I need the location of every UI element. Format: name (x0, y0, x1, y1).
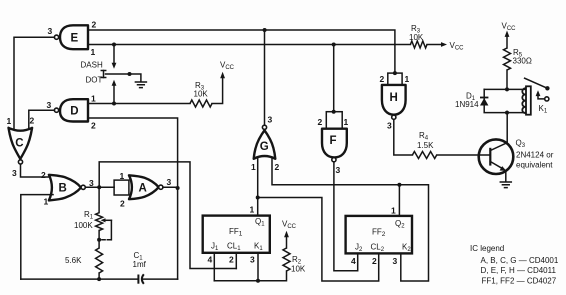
node relay top (505, 87, 509, 91)
resistor R4 1.5K (412, 131, 436, 159)
svg-text:1: 1 (7, 116, 12, 126)
gate A (tied-input NOR inverter) (114, 171, 171, 209)
svg-text:VCC: VCC (282, 220, 297, 231)
node 5.6K bottom on rail (97, 277, 101, 281)
wire FF1 Q1 up to gate G pin 1 and across to FF2 clock (257, 158, 259, 216)
svg-text:4: 4 (351, 256, 356, 266)
wire FF1 K1 pin 3 stub (257, 253, 259, 281)
node F input tap (332, 43, 336, 47)
resistor R3 10K (pull-up for DOT net) (190, 81, 212, 107)
switch lever (pole) (101, 71, 141, 82)
svg-text:10K: 10K (194, 90, 209, 99)
Vcc arrow (R2) (282, 220, 297, 249)
svg-text:3: 3 (393, 256, 398, 266)
svg-text:3: 3 (12, 168, 17, 178)
svg-text:1: 1 (344, 117, 349, 127)
svg-text:C: C (15, 138, 23, 150)
wire relay top rail (484, 88, 526, 90)
node Q1 junction (256, 196, 260, 200)
svg-text:1: 1 (44, 197, 49, 207)
capacitor C1 1mf (133, 251, 147, 284)
wire relay bottom rail (484, 112, 526, 114)
node K1 junction (256, 279, 260, 283)
svg-text:2: 2 (41, 170, 46, 180)
wire to R3 right (395, 44, 411, 46)
wire R4 to Q3 base (437, 154, 490, 156)
svg-text:1: 1 (91, 94, 96, 104)
wire C output to B pin 2 (21, 164, 54, 177)
node DASH tap (112, 43, 116, 47)
relay coil K1 (522, 86, 530, 114)
svg-text:1: 1 (120, 171, 125, 181)
svg-text:E: E (71, 33, 79, 45)
IC legend (470, 244, 559, 285)
gate H (tied-input NAND inverter pointing down) (380, 71, 410, 130)
gate C (7, 116, 35, 179)
svg-text:A, B, C, G — CD4001: A, B, C, G — CD4001 (481, 256, 559, 265)
svg-text:1: 1 (251, 162, 256, 172)
flip-flop FF1 (CD4027 half) (203, 205, 270, 265)
svg-text:2: 2 (372, 256, 377, 266)
wire B pin 1 down to bottom rail (21, 195, 53, 280)
svg-text:R1: R1 (84, 210, 94, 221)
switch contact DASH (upper throw) (113, 45, 115, 64)
ground (Q3 emitter) (500, 182, 511, 188)
svg-text:equivalent: equivalent (516, 161, 553, 170)
svg-text:K1: K1 (539, 104, 548, 115)
svg-text:3: 3 (336, 165, 341, 175)
resistor R2 10K (283, 248, 306, 274)
gate F (tied-input NAND inverter pointing down) (318, 45, 349, 176)
svg-text:DOT: DOT (86, 76, 103, 85)
wire E output to C pin 1 (14, 37, 54, 129)
transistor Q3 2N4124 NPN (479, 112, 554, 182)
wire FF1 J1 pin 4 down (213, 253, 215, 281)
node relay bottom (505, 111, 509, 115)
svg-text:3: 3 (387, 121, 392, 131)
svg-text:D, E, F, H — CD4011: D, E, F, H — CD4011 (481, 266, 557, 275)
node switch pole (128, 72, 132, 76)
svg-text:10K: 10K (409, 33, 424, 42)
svg-text:B: B (59, 183, 67, 195)
svg-text:2: 2 (318, 117, 323, 127)
svg-text:H: H (390, 92, 398, 104)
wire B output to gate A input (85, 186, 114, 188)
svg-text:VCC: VCC (502, 22, 517, 33)
wire gate G pin 2 to Q2/K2 net (272, 158, 429, 282)
svg-text:IC legend: IC legend (470, 244, 504, 253)
svg-text:D: D (70, 106, 78, 118)
svg-text:2: 2 (120, 199, 125, 209)
wire bottom rail (21, 278, 138, 280)
svg-text:100K: 100K (74, 221, 93, 230)
svg-text:FF1, FF2 — CD4027: FF1, FF2 — CD4027 (482, 276, 557, 285)
relay contact K1 (525, 78, 550, 114)
svg-text:2: 2 (380, 74, 385, 84)
svg-text:1mf: 1mf (133, 260, 147, 269)
svg-text:1N914: 1N914 (455, 100, 479, 109)
svg-text:1.5K: 1.5K (417, 141, 434, 150)
wire D output to C pin 2 (29, 110, 55, 129)
svg-text:VCC: VCC (450, 41, 465, 52)
wire gate F output to FF2 J2 (334, 162, 358, 271)
switch contact DOT (lower throw) (112, 80, 117, 86)
svg-text:2: 2 (91, 121, 96, 131)
wire D pin 1 net (88, 103, 190, 105)
wire E pin 2 net (G output to H input) (88, 30, 395, 73)
gate G (NOR pointing up) (251, 30, 280, 172)
node Q2 junction (397, 183, 401, 187)
svg-text:DASH: DASH (81, 60, 103, 69)
svg-text:R4: R4 (419, 131, 429, 142)
wire R5 to relay top rail (506, 70, 508, 89)
svg-text:2: 2 (92, 20, 97, 30)
resistor R3 10K (pull-up right) (409, 24, 427, 48)
potentiometer R1 100K (74, 187, 111, 248)
wire A output to vertical node (163, 186, 178, 188)
node G output tap (263, 28, 267, 32)
wire Q2 stub (398, 185, 400, 216)
node A output junction (176, 186, 180, 190)
svg-text:10K: 10K (291, 265, 306, 274)
resistor 5.6K (65, 248, 103, 281)
node R1 wiper tap (97, 238, 101, 242)
wire E pin 1 net (DASH net) (88, 44, 395, 46)
svg-text:1: 1 (391, 206, 396, 216)
svg-text:2: 2 (275, 162, 280, 172)
gate B (41, 170, 94, 207)
svg-text:A: A (139, 183, 147, 195)
node H tie-box top (393, 71, 397, 75)
svg-text:F: F (330, 135, 337, 147)
svg-text:2: 2 (30, 116, 35, 126)
wire FF1 CL1 pin 2 stub (235, 253, 237, 269)
flip-flop FF2 (CD4027 half) (346, 206, 412, 267)
svg-text:Q3: Q3 (516, 139, 526, 150)
node F tie-box top (332, 110, 336, 114)
wire D pin 2 / A output vertical to bottom rail (88, 118, 178, 279)
node DOT tap (112, 102, 116, 106)
svg-text:3: 3 (167, 177, 172, 187)
wire J1/K1 to R2 (214, 271, 286, 281)
Vcc arrow (right, after R3) (427, 41, 464, 52)
svg-text:2: 2 (229, 255, 234, 265)
svg-text:3: 3 (48, 26, 53, 36)
svg-text:5.6K: 5.6K (65, 256, 82, 265)
svg-text:VCC: VCC (220, 61, 235, 72)
svg-text:2N4124 or: 2N4124 or (516, 151, 554, 160)
svg-text:330Ω: 330Ω (513, 57, 532, 66)
svg-text:1: 1 (91, 47, 96, 57)
svg-text:4: 4 (208, 255, 213, 265)
svg-text:1: 1 (250, 205, 255, 215)
resistor R5 330ohm (504, 48, 532, 70)
svg-text:G: G (260, 141, 269, 153)
Vcc arrow (R5) (502, 22, 517, 49)
svg-text:3: 3 (47, 100, 52, 110)
wire H output down to R4 (394, 119, 413, 155)
svg-text:1: 1 (405, 74, 410, 84)
ground (switch) (135, 82, 146, 88)
svg-text:3: 3 (268, 115, 273, 125)
Vcc arrow (R3 left) (212, 61, 235, 104)
wire B output feedback to FF1 clock (99, 162, 236, 269)
svg-text:3: 3 (250, 255, 255, 265)
diode D1 1N914 (455, 89, 488, 111)
node B output junction (97, 185, 101, 189)
gate E (48, 20, 97, 58)
gate D (47, 94, 97, 131)
